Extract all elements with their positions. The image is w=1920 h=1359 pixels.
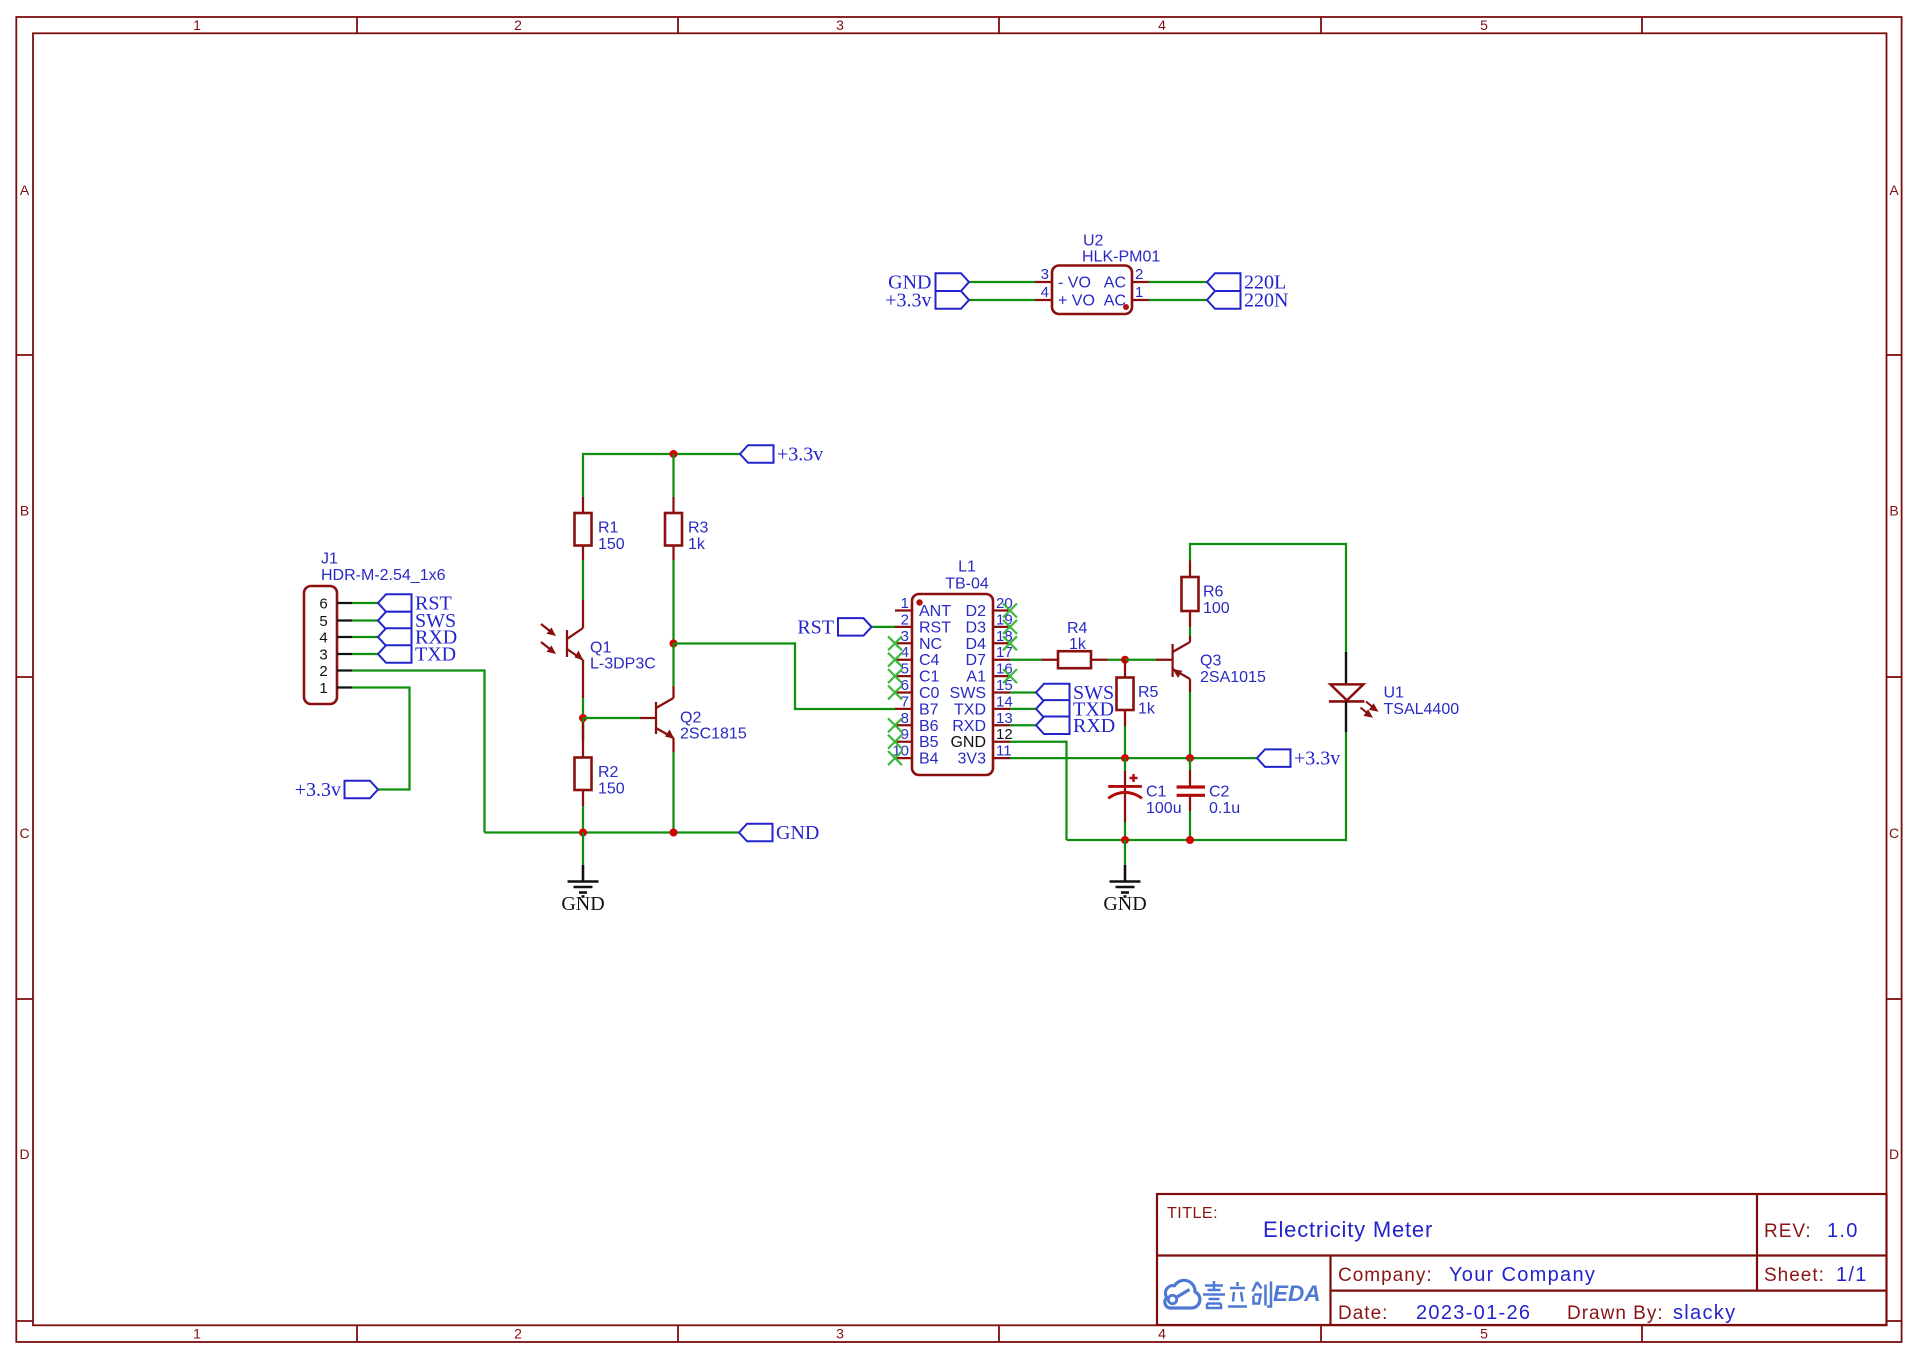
svg-text:Q2: Q2: [680, 710, 701, 727]
svg-text:D4: D4: [966, 636, 987, 653]
wire C1 bottom to rail: [1124, 822, 1126, 840]
svg-text:2: 2: [319, 663, 327, 680]
svg-text:5: 5: [1480, 17, 1488, 33]
port RXD at L1: [1036, 715, 1115, 737]
svg-text:11: 11: [996, 743, 1012, 760]
svg-text:5: 5: [1480, 1326, 1488, 1342]
no-connect X pin19: [1003, 620, 1017, 634]
svg-text:B4: B4: [919, 751, 939, 768]
svg-text:1k: 1k: [1138, 701, 1156, 718]
svg-text:150: 150: [598, 781, 625, 798]
wire +3.3v top rail: [583, 454, 740, 497]
svg-text:D3: D3: [966, 619, 987, 636]
svg-text:1/1: 1/1: [1836, 1264, 1868, 1286]
port RST at L1: [797, 616, 871, 638]
svg-text:D: D: [19, 1146, 29, 1162]
port +3.3v at U2: [885, 290, 969, 312]
svg-text:B: B: [1889, 503, 1898, 519]
wire node C to Q3 base: [1125, 659, 1156, 661]
wire Q3 emitter to 3V3 line: [1189, 692, 1191, 758]
svg-text:B6: B6: [919, 718, 939, 735]
svg-text:TXD: TXD: [415, 644, 456, 666]
svg-text:+ VO: + VO: [1058, 293, 1095, 310]
svg-text:R4: R4: [1067, 620, 1088, 637]
svg-text:A1: A1: [966, 669, 986, 686]
resistor R2 150: [575, 722, 625, 806]
resistor R1 150: [575, 497, 625, 560]
svg-text:GND: GND: [1103, 893, 1146, 915]
transistor Q3 2SA1015: [1156, 636, 1266, 692]
svg-text:U1: U1: [1384, 685, 1405, 702]
port TXD at J1: [378, 644, 456, 666]
svg-text:1: 1: [901, 595, 909, 612]
svg-text:TXD: TXD: [954, 701, 986, 718]
port GND at U2: [888, 272, 969, 294]
IC U2 HLK-PM01: [1035, 233, 1160, 315]
capacitor C1 100u: [1108, 758, 1181, 822]
node rail R2 junction: [579, 829, 587, 837]
svg-text:TB-04: TB-04: [945, 576, 989, 593]
no-connect X pin9: [888, 735, 902, 749]
no-connect X pin16: [1003, 669, 1017, 683]
svg-text:Your Company: Your Company: [1449, 1264, 1596, 1286]
svg-text:150: 150: [598, 536, 625, 553]
svg-text:R6: R6: [1203, 584, 1224, 601]
wire Q2 collector: [672, 644, 674, 687]
svg-text:1.0: 1.0: [1827, 1220, 1859, 1242]
wire GND port to U2 pin3: [969, 281, 1035, 283]
svg-text:1k: 1k: [688, 536, 706, 553]
svg-text:AC: AC: [1104, 293, 1126, 310]
svg-text:Q1: Q1: [590, 640, 611, 657]
svg-text:RST: RST: [919, 619, 951, 636]
svg-text:D7: D7: [966, 652, 987, 669]
wire U2 pin2 to 220L port: [1149, 281, 1207, 283]
svg-text:SWS: SWS: [950, 685, 986, 702]
wire L1 pin12 GND to bottom rail: [1010, 742, 1067, 840]
svg-text:RXD: RXD: [1073, 715, 1115, 737]
svg-text:GND: GND: [776, 822, 819, 844]
wire J1 pin1 to +3.3v port: [352, 688, 410, 790]
wire J1 pin2 to ground rail: [352, 671, 485, 833]
svg-text:4: 4: [319, 630, 327, 647]
svg-text:R2: R2: [598, 764, 619, 781]
node B junction R3/Q2 collector: [670, 640, 678, 648]
svg-text:+3.3v: +3.3v: [777, 444, 823, 466]
wire +3.3v port to U2 pin4: [969, 299, 1035, 301]
wire node A to R2: [582, 718, 584, 741]
IC L1 TB-04: [892, 559, 1012, 776]
svg-text:L1: L1: [958, 559, 976, 576]
svg-text:HDR-M-2.54_1x6: HDR-M-2.54_1x6: [321, 567, 446, 584]
svg-text:ANT: ANT: [919, 603, 951, 620]
svg-text:EDA: EDA: [1273, 1281, 1321, 1306]
no-connect X pin3: [888, 636, 902, 650]
svg-text:1: 1: [319, 680, 327, 697]
wire R1 to Q1 collector: [582, 560, 584, 600]
wire J1 pin6 to RST port: [352, 602, 378, 604]
svg-text:4: 4: [1158, 1326, 1166, 1342]
transistor Q1 L-3DP3C phototransistor: [541, 600, 656, 698]
no-connect X pin8: [888, 718, 902, 732]
svg-text:REV:: REV:: [1764, 1221, 1812, 1242]
svg-text:C2: C2: [1209, 784, 1230, 801]
svg-text:GND: GND: [561, 893, 604, 915]
svg-text:1k: 1k: [1069, 636, 1087, 653]
svg-text:TITLE:: TITLE:: [1167, 1205, 1218, 1222]
wire rail to right ground: [1124, 840, 1126, 865]
port GND left: [739, 822, 819, 844]
wire Q2 emitter to ground rail: [672, 752, 674, 833]
wire C2 bottom to rail: [1189, 811, 1191, 840]
connector J1 HDR-M-2.54_1x6: [304, 551, 446, 705]
svg-text:+3.3v: +3.3v: [295, 779, 341, 801]
port SWS at L1: [1036, 682, 1114, 704]
svg-text:B5: B5: [919, 734, 939, 751]
svg-text:HLK-PM01: HLK-PM01: [1082, 249, 1160, 266]
svg-text:A: A: [20, 182, 30, 198]
svg-text:2: 2: [901, 611, 909, 628]
LED U1 TSAL4400: [1329, 652, 1459, 732]
svg-text:4: 4: [1158, 17, 1166, 33]
port TXD at L1: [1036, 698, 1114, 720]
svg-text:100: 100: [1203, 600, 1230, 617]
svg-text:Company:: Company:: [1338, 1265, 1433, 1286]
capacitor C2 0.1u: [1177, 758, 1241, 817]
ground symbol right: [1103, 865, 1146, 915]
svg-text:2SA1015: 2SA1015: [1200, 669, 1266, 686]
wire R6 top rail to LED: [1190, 544, 1346, 652]
wire RST port to L1 pin2: [872, 626, 896, 628]
port +3.3v top: [740, 444, 823, 466]
svg-text:1: 1: [1135, 284, 1143, 301]
wire R3 top: [672, 454, 674, 497]
svg-text:C: C: [1889, 825, 1899, 841]
svg-text:Sheet:: Sheet:: [1764, 1265, 1825, 1286]
svg-text:D2: D2: [966, 603, 987, 620]
wire R3 bottom to node B: [672, 560, 674, 644]
svg-text:RXD: RXD: [952, 718, 986, 735]
svg-text:100u: 100u: [1146, 800, 1182, 817]
resistor R5 1k: [1117, 660, 1159, 726]
svg-text:2SC1815: 2SC1815: [680, 726, 747, 743]
svg-text:B: B: [20, 503, 29, 519]
wire node A to Q2 base: [583, 717, 640, 719]
port +3.3v right: [1257, 748, 1340, 770]
no-connect X pin5: [888, 669, 902, 683]
node C junction R4/R5/Q3 base: [1121, 656, 1129, 664]
no-connect X pin10: [888, 751, 902, 765]
wire node B to L1 pin B7: [674, 644, 896, 710]
port SWS at J1: [378, 610, 456, 632]
svg-text:TSAL4400: TSAL4400: [1384, 701, 1460, 718]
resistor R3 1k: [665, 497, 709, 560]
node rail C1 junction: [1121, 836, 1129, 844]
port 220L: [1207, 272, 1286, 294]
svg-text:Electricity Meter: Electricity Meter: [1263, 1217, 1433, 1242]
svg-text:1: 1: [193, 17, 201, 33]
svg-text:C0: C0: [919, 685, 940, 702]
wire L1 pin14 to TXD port: [1010, 708, 1036, 710]
wire L1 pin15 to SWS port: [1010, 691, 1036, 693]
wire 3V3 line from L1 pin11: [1010, 757, 1257, 759]
port RXD at J1: [378, 627, 457, 649]
wire R2 bottom to ground rail: [582, 806, 584, 833]
svg-text:R3: R3: [688, 520, 709, 537]
svg-text:NC: NC: [919, 636, 942, 653]
svg-text:GND: GND: [950, 734, 986, 751]
ground symbol left: [561, 865, 604, 915]
svg-text:C4: C4: [919, 652, 940, 669]
svg-text:3V3: 3V3: [958, 751, 987, 768]
svg-text:D: D: [1889, 1146, 1899, 1162]
wire J1 pin3 to TXD port: [352, 653, 378, 655]
no-connect X pin6: [888, 686, 902, 700]
svg-text:J1: J1: [321, 551, 338, 568]
svg-text:A: A: [1889, 182, 1899, 198]
svg-text:C: C: [19, 825, 29, 841]
no-connect X pin20: [1003, 604, 1017, 618]
logo EasyEDA: [1165, 1280, 1321, 1308]
svg-text:L-3DP3C: L-3DP3C: [590, 656, 656, 673]
svg-text:6: 6: [319, 596, 327, 613]
svg-text:C1: C1: [1146, 784, 1167, 801]
svg-text:+3.3v: +3.3v: [1294, 748, 1340, 770]
port RST at J1: [378, 593, 452, 615]
svg-text:3: 3: [1041, 266, 1049, 283]
svg-text:AC: AC: [1104, 275, 1126, 292]
no-connect X pin4: [888, 653, 902, 667]
svg-text:R5: R5: [1138, 684, 1159, 701]
transistor Q2 2SC1815: [640, 686, 747, 752]
node top rail junction: [670, 450, 678, 458]
svg-text:0.1u: 0.1u: [1209, 800, 1240, 817]
node rail C2 junction: [1186, 836, 1194, 844]
svg-text:Date:: Date:: [1338, 1303, 1388, 1324]
node rail Q2 junction: [670, 829, 678, 837]
wire rail to ground symbol: [582, 833, 584, 866]
wire L1 pin13 to RXD port: [1010, 724, 1036, 726]
svg-text:RST: RST: [797, 616, 834, 638]
no-connect X pin18: [1003, 636, 1017, 650]
svg-text:2023-01-26: 2023-01-26: [1416, 1302, 1531, 1324]
wire R6 bottom to Q3 collector: [1189, 627, 1191, 636]
port +3.3v lower left: [295, 779, 378, 801]
svg-text:3: 3: [319, 647, 327, 664]
node E junction Q3/C2 on 3V3 line: [1186, 754, 1194, 762]
wire U2 pin1 to 220N port: [1149, 299, 1207, 301]
svg-text:2: 2: [1135, 266, 1143, 283]
wire LED cathode to rail: [1067, 732, 1347, 840]
wire R4 to node C: [1108, 659, 1126, 661]
svg-text:2: 2: [514, 17, 522, 33]
svg-text:U2: U2: [1083, 233, 1104, 250]
svg-text:7: 7: [901, 693, 909, 710]
svg-text:+3.3v: +3.3v: [885, 290, 931, 312]
svg-text:4: 4: [1041, 284, 1049, 301]
title block: [1157, 1194, 1887, 1325]
svg-text:Q3: Q3: [1200, 653, 1221, 670]
port 220N: [1207, 290, 1288, 312]
wire J1 pin5 to SWS port: [352, 619, 378, 621]
svg-text:1: 1: [193, 1326, 201, 1342]
resistor R4 1k: [1042, 620, 1108, 668]
svg-text:3: 3: [836, 1326, 844, 1342]
wire Q1 emitter to node A: [582, 698, 584, 741]
wire L1 pin17 D7 to R4: [1010, 659, 1042, 661]
wire J1 pin4 to RXD port: [352, 636, 378, 638]
node D junction R5/C1 on 3V3 line: [1121, 754, 1129, 762]
svg-text:R1: R1: [598, 520, 619, 537]
wire left ground rail: [485, 831, 740, 833]
resistor R6 100: [1182, 561, 1230, 628]
svg-text:5: 5: [319, 613, 327, 630]
svg-text:2: 2: [514, 1326, 522, 1342]
svg-text:3: 3: [836, 17, 844, 33]
svg-text:B7: B7: [919, 701, 939, 718]
svg-text:Drawn By:: Drawn By:: [1567, 1303, 1664, 1324]
svg-text:C1: C1: [919, 669, 940, 686]
svg-text:slacky: slacky: [1673, 1302, 1736, 1324]
svg-text:220N: 220N: [1244, 290, 1288, 312]
svg-text:- VO: - VO: [1058, 275, 1091, 292]
node A junction Q1/R2/Q2 base: [579, 714, 587, 722]
wire R5 bottom to 3V3 line: [1124, 726, 1126, 758]
